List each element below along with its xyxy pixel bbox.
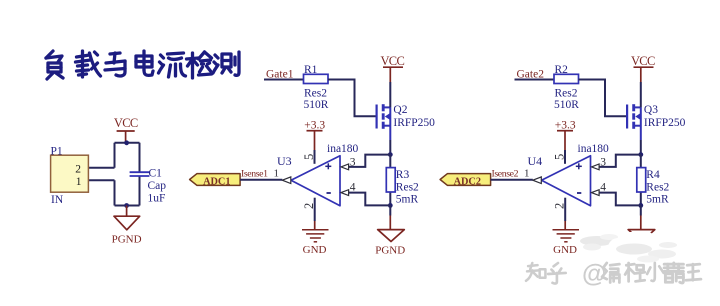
- svg-text:R3: R3: [396, 169, 410, 181]
- transistor Q2 IRFP250: [377, 82, 391, 155]
- svg-text:3: 3: [600, 156, 606, 168]
- power +3.3 (op-amp V+): [304, 120, 325, 151]
- svg-text:510R: 510R: [304, 99, 329, 111]
- ground GND (op-amp V-): [553, 221, 580, 256]
- svg-text:Isense1: Isense1: [241, 168, 268, 179]
- wire Gate1 to R1: [264, 79, 304, 81]
- svg-text:Q2: Q2: [393, 104, 407, 116]
- value C1 Cap 1uF: [148, 167, 167, 204]
- designator R1: [304, 64, 318, 76]
- svg-text:Q3: Q3: [644, 104, 658, 116]
- pin number 2: [552, 203, 566, 209]
- svg-text:4: 4: [600, 182, 606, 194]
- svg-text:PGND: PGND: [375, 244, 405, 256]
- svg-text:IRFP250: IRFP250: [644, 117, 686, 129]
- pin number 4: [600, 182, 606, 194]
- value ina180: [578, 143, 610, 155]
- svg-text:2: 2: [75, 163, 81, 175]
- title 负载与电流检测: [46, 51, 239, 79]
- wire junction to op-amp pin 3: [598, 155, 641, 167]
- svg-text:Cap: Cap: [148, 180, 167, 192]
- resistor R3 (shunt): [386, 168, 395, 192]
- port ADC1: [190, 174, 241, 188]
- svg-text:IRFP250: IRFP250: [393, 117, 435, 129]
- svg-text:5mR: 5mR: [646, 193, 669, 205]
- svg-text:R1: R1: [304, 64, 318, 76]
- svg-text:VCC: VCC: [631, 54, 655, 68]
- designator Q3 IRFP250: [644, 104, 686, 129]
- pin number 4: [350, 182, 356, 194]
- svg-text:+3.3: +3.3: [555, 120, 576, 132]
- resistor R4 (shunt): [637, 168, 646, 192]
- wire pin 2: [314, 198, 316, 221]
- port ADC2: [440, 174, 491, 188]
- wire R2 to gate of Q3: [579, 80, 627, 117]
- resistor R1: [304, 74, 329, 83]
- junction node VCC/C1: [124, 140, 129, 145]
- svg-text:VCC: VCC: [380, 54, 404, 68]
- op-amp U3 ina180: [291, 156, 340, 206]
- power VCC (Q2 drain): [380, 54, 404, 82]
- svg-text:Isense2: Isense2: [492, 168, 519, 179]
- junction node source of Q2 / R3: [388, 152, 393, 157]
- svg-text:GND: GND: [303, 244, 327, 256]
- pin number 5: [302, 154, 316, 160]
- pin 3 input arrow: [592, 164, 600, 170]
- pin number 5: [552, 154, 566, 160]
- censor blur patch B: [608, 238, 683, 266]
- wire P1 pin1 to loop bottom: [89, 180, 140, 205]
- power VCC (Q3 drain): [631, 54, 655, 82]
- designator U3: [277, 154, 292, 168]
- svg-text:+3.3: +3.3: [304, 120, 325, 132]
- wire ADC1 to op-amp output: [240, 179, 282, 181]
- svg-text:C1: C1: [149, 167, 163, 179]
- power VCC (input section): [114, 116, 138, 143]
- value Res2 510R (R2): [554, 88, 579, 111]
- svg-text:1uF: 1uF: [148, 193, 166, 205]
- wire pin 5: [564, 150, 566, 164]
- svg-text:Res2: Res2: [646, 181, 669, 193]
- power +3.3 (op-amp V+): [555, 120, 576, 151]
- net label Isense2: [492, 168, 519, 179]
- designator R2: [555, 64, 569, 76]
- net label Gate1: [266, 69, 294, 81]
- svg-text:1: 1: [524, 167, 530, 179]
- capacitor C1: [130, 172, 150, 176]
- svg-text:VCC: VCC: [114, 116, 138, 130]
- svg-text:ina180: ina180: [578, 143, 610, 155]
- svg-text:510R: 510R: [554, 99, 579, 111]
- svg-text:1: 1: [76, 176, 82, 188]
- connector P1: [51, 146, 89, 206]
- ground GND (op-amp V-): [302, 221, 329, 256]
- wire junction to op-amp pin 4: [348, 193, 391, 206]
- svg-text:U4: U4: [528, 154, 543, 168]
- watermark 知乎 @编程小霸王: [526, 260, 701, 288]
- pin 1 output arrow: [282, 177, 291, 184]
- ground PGND (input section): [112, 206, 142, 246]
- net label Gate2: [517, 69, 545, 81]
- svg-text:R2: R2: [555, 64, 569, 76]
- designator R3: [396, 169, 410, 181]
- svg-text:5mR: 5mR: [396, 193, 419, 205]
- pin 3 input arrow: [341, 164, 349, 170]
- svg-text:ADC1: ADC1: [203, 176, 230, 187]
- junction node bottom of R4: [638, 203, 643, 208]
- svg-text:3: 3: [350, 156, 356, 168]
- resistor R2: [554, 74, 579, 83]
- pin 4 input arrow: [592, 190, 600, 196]
- censor blur patch A: [580, 232, 656, 253]
- svg-text:4: 4: [350, 182, 356, 194]
- op-amp U4 ina180: [542, 156, 591, 206]
- net label Isense1: [241, 168, 268, 179]
- pin number 1: [274, 167, 280, 179]
- pin 1 output arrow: [533, 177, 542, 184]
- wire junction to op-amp pin 3: [348, 155, 391, 167]
- junction node PGND/C1: [124, 203, 129, 208]
- svg-text:R4: R4: [646, 169, 660, 181]
- svg-text:Res2: Res2: [555, 88, 578, 100]
- svg-text:Res2: Res2: [304, 88, 327, 100]
- wire pin 2: [564, 198, 566, 221]
- wire R3: [389, 155, 391, 206]
- value Res2 510R (R1): [304, 88, 329, 111]
- junction node bottom of R3: [388, 203, 393, 208]
- transistor Q3 IRFP250: [627, 82, 641, 155]
- pin number 3: [600, 156, 606, 168]
- pin number 1: [524, 167, 530, 179]
- svg-text:IN: IN: [51, 194, 64, 206]
- value ina180: [327, 143, 359, 155]
- svg-text:PGND: PGND: [112, 233, 142, 245]
- value Res2 5mR (R4): [646, 181, 669, 205]
- svg-text:@: @: [582, 260, 606, 288]
- svg-text:Res2: Res2: [396, 181, 419, 193]
- svg-text:U3: U3: [277, 154, 292, 168]
- wire C1 branch: [139, 143, 141, 206]
- svg-text:2: 2: [302, 203, 316, 209]
- value Res2 5mR (R3): [396, 181, 419, 205]
- designator R4: [646, 169, 660, 181]
- wire Gate2 to R2: [515, 79, 555, 81]
- svg-text:ADC2: ADC2: [454, 176, 481, 187]
- pin number 3: [350, 156, 356, 168]
- designator Q2 IRFP250: [393, 104, 435, 129]
- wire VCC rail to C1 loop top: [89, 143, 140, 168]
- wire pin 5: [314, 150, 316, 164]
- wire ADC2 to op-amp output: [491, 179, 533, 181]
- junction node source of Q3 / R4: [638, 152, 643, 157]
- svg-text:GND: GND: [553, 244, 577, 256]
- pin number 2: [302, 203, 316, 209]
- wire junction to op-amp pin 4: [598, 193, 641, 206]
- wire R4: [640, 155, 642, 206]
- svg-text:P1: P1: [51, 146, 63, 158]
- svg-text:ina180: ina180: [327, 143, 359, 155]
- pin 4 input arrow: [341, 190, 349, 196]
- svg-text:1: 1: [274, 167, 280, 179]
- ground PGND (R3): [375, 205, 405, 256]
- ground PGND (R4): [628, 205, 655, 241]
- designator U4: [528, 154, 543, 168]
- wire R1 to gate of Q2: [328, 80, 376, 117]
